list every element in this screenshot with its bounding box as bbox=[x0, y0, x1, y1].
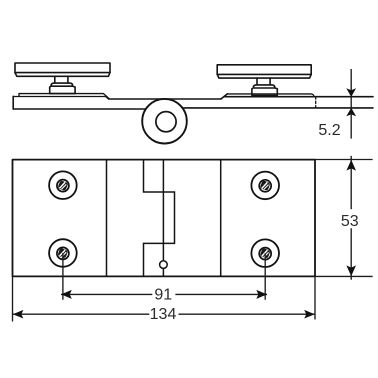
right leaf chamfer up and second line bbox=[221, 94, 227, 99]
arrow up at bottom line bbox=[346, 108, 356, 117]
left leaf top thin plate bbox=[19, 94, 109, 99]
arrow left 134 bbox=[13, 310, 24, 319]
knuckle roll inner (pin hole) bbox=[156, 112, 176, 132]
screw hole top-left bbox=[49, 171, 77, 199]
pin end small circle bbox=[160, 261, 168, 269]
dim line 91 bbox=[61, 293, 267, 295]
left leaf bottom line bbox=[13, 108, 146, 110]
screw holes bbox=[49, 171, 279, 267]
arrow up 53 bbox=[346, 160, 356, 171]
arrow right 134 bbox=[304, 310, 315, 319]
hidden edge dashed (plate end projection) bbox=[315, 97, 317, 108]
dim line 5.2 bbox=[350, 69, 352, 139]
arrow down at top line bbox=[346, 88, 356, 97]
knuckle cutout step bbox=[144, 160, 175, 277]
right clamp knob stem bbox=[257, 78, 270, 85]
dim line 134 bbox=[13, 313, 315, 315]
arrow right 91 bbox=[256, 290, 267, 299]
svg-text:53: 53 bbox=[341, 213, 359, 230]
right clamp knob head bbox=[217, 65, 311, 78]
left clamp knob stem bbox=[55, 76, 68, 83]
knuckle roll outer bbox=[142, 99, 187, 144]
arrow down 53 bbox=[346, 265, 356, 276]
svg-text:134: 134 bbox=[150, 306, 177, 323]
left clamp knob head bbox=[15, 63, 110, 76]
left leaf divider bbox=[106, 160, 108, 277]
screw hole top-right bbox=[251, 172, 279, 200]
extension lines 53 bbox=[315, 160, 373, 277]
screw hole bottom-right bbox=[251, 239, 279, 267]
extension lines 91 bbox=[63, 253, 265, 300]
right leaf top thin line bbox=[227, 94, 314, 97]
screw hole bottom-left bbox=[49, 239, 77, 267]
knuckle band right edge bbox=[220, 160, 222, 277]
hinge pin center line bbox=[162, 160, 164, 261]
left leaf second line with chamfer bbox=[13, 97, 108, 100]
left clamp knob base bbox=[50, 83, 75, 94]
svg-text:91: 91 bbox=[154, 286, 172, 303]
extension lines 134 bbox=[13, 276, 316, 321]
dim line 53 bbox=[350, 156, 352, 280]
main top surface line across knuckle bbox=[109, 98, 221, 100]
right leaf bottom line bbox=[184, 107, 373, 109]
right clamp knob base bbox=[252, 85, 277, 96]
svg-text:5.2: 5.2 bbox=[318, 122, 340, 139]
arrow left 91 bbox=[61, 290, 72, 299]
left leaf left edge bbox=[12, 96, 14, 109]
plate outline bbox=[13, 160, 316, 277]
